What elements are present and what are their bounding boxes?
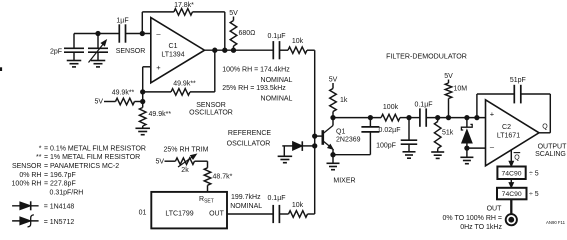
svg-text:0Hz TO 1kHz: 0Hz TO 1kHz — [460, 224, 502, 231]
diode 1N5712 schottky clamp — [461, 118, 472, 158]
scan edge artifact — [0, 68, 2, 71]
svg-text:= 196.7pF: = 196.7pF — [44, 172, 76, 179]
capacitor 0.02uF — [361, 118, 400, 134]
svg-text:5V: 5V — [155, 159, 164, 166]
label AN90 F11 — [546, 220, 566, 225]
op-amp C2 LT1671 — [486, 100, 540, 166]
svg-text:51k: 51k — [442, 130, 454, 137]
svg-text:10k: 10k — [292, 202, 304, 209]
resistor 48.7k — [204, 161, 232, 192]
wire emitter to 0.02uF — [333, 132, 370, 155]
svg-text:LTC1799: LTC1799 — [165, 210, 193, 217]
wire LTC1799 OUT — [227, 213, 273, 215]
transistor Q1 2N2369 — [315, 118, 361, 155]
resistor 10k — [279, 38, 314, 53]
capacitor 0.1uF filter — [414, 102, 432, 127]
node — [465, 146, 469, 150]
svg-text:199.7kHz: 199.7kHz — [231, 194, 261, 201]
svg-text:= 227.8pF: = 227.8pF — [44, 181, 76, 188]
resistor 10M — [445, 80, 467, 118]
node — [475, 115, 479, 119]
node — [436, 115, 440, 119]
resistor 17.8k feedback — [142, 2, 225, 50]
capacitor 1uF — [116, 17, 128, 42]
svg-text:100k: 100k — [383, 104, 399, 111]
wire C2 output Q — [539, 123, 550, 133]
svg-text:OUTPUT: OUTPUT — [538, 144, 567, 151]
svg-text:100pF: 100pF — [376, 142, 396, 149]
capacitor 51pF feedback — [477, 77, 550, 133]
node sensor junction — [96, 31, 100, 35]
svg-text:100% RH: 100% RH — [12, 181, 42, 188]
node emitter — [331, 153, 335, 157]
svg-text:= 1N5712: = 1N5712 — [44, 219, 75, 226]
wire sensor top rail — [74, 33, 119, 35]
node — [465, 115, 469, 119]
svg-text:C1: C1 — [169, 43, 178, 50]
op-amp C1 LT1394 — [151, 18, 205, 83]
svg-text:49.9k**: 49.9k** — [112, 90, 135, 97]
capacitor 0.1uF coupling — [267, 195, 285, 223]
svg-text:2k: 2k — [181, 167, 189, 174]
capacitor 0.1uF coupling — [267, 33, 285, 59]
resistor 49.9k to ground — [139, 102, 171, 129]
svg-text:NOMINAL: NOMINAL — [261, 77, 293, 84]
legend notes — [12, 145, 146, 196]
svg-text:SCALING: SCALING — [535, 151, 566, 158]
node diode tap — [313, 144, 317, 148]
power 5V — [444, 73, 453, 80]
label 25% RH TRIM — [164, 146, 209, 153]
legend diode 1N4148 — [12, 201, 74, 210]
svg-text:0% RH: 0% RH — [19, 172, 41, 179]
svg-text:49.9k**: 49.9k** — [173, 81, 196, 88]
resistor 1k — [330, 83, 348, 118]
wire C1 noninverting input — [143, 67, 151, 102]
wire to C2 inverting input — [467, 147, 486, 149]
label 199.7kHz NOMINAL — [230, 194, 262, 210]
node — [446, 115, 450, 119]
label SENSOR OSCILLATOR — [189, 102, 233, 117]
label REFERENCE OSCILLATOR — [227, 130, 272, 147]
svg-text:680Ω: 680Ω — [239, 30, 256, 37]
svg-text:0% TO 100% RH =: 0% TO 100% RH = — [443, 215, 502, 222]
node — [407, 115, 411, 119]
svg-text:= 0.1% METAL FILM RESISTOR: = 0.1% METAL FILM RESISTOR — [44, 145, 146, 152]
label output range — [443, 215, 503, 231]
svg-text:48.7k*: 48.7k* — [213, 173, 233, 180]
diode 1N4148 clamp — [278, 141, 315, 162]
label MIXER — [333, 178, 355, 185]
svg-text:0.1µF: 0.1µF — [267, 33, 285, 40]
svg-text:SENSOR: SENSOR — [196, 102, 226, 109]
svg-text:10k: 10k — [292, 38, 304, 45]
svg-text:100% RH = 174.4kHz: 100% RH = 174.4kHz — [222, 67, 290, 74]
svg-text:NOMINAL: NOMINAL — [261, 95, 293, 102]
svg-text:**: ** — [36, 154, 42, 161]
svg-text:SENSOR: SENSOR — [116, 48, 146, 55]
svg-text:74C90: 74C90 — [501, 170, 521, 177]
wire emitter to ground — [332, 155, 334, 164]
svg-text:25% RH = 193.5kHz: 25% RH = 193.5kHz — [222, 85, 286, 92]
node mixer base tap — [313, 134, 317, 138]
node A — [141, 90, 145, 94]
resistor 49.9k positive feedback — [143, 50, 215, 95]
svg-text:MIXER: MIXER — [333, 178, 355, 185]
wire filter rail — [333, 117, 381, 119]
svg-text:51pF: 51pF — [510, 77, 526, 84]
ground — [91, 61, 106, 67]
svg-text:Q: Q — [542, 123, 548, 130]
output terminal — [506, 214, 517, 225]
svg-text:0.1µF: 0.1µF — [267, 195, 285, 202]
wire main vertical to mixer — [314, 50, 316, 214]
svg-text:÷ 5: ÷ 5 — [529, 191, 539, 198]
svg-text:OUT: OUT — [209, 210, 225, 217]
sensor capacitor (variable) — [88, 34, 145, 63]
svg-text:0.02µF: 0.02µF — [379, 127, 401, 134]
wire Qbar to divider — [509, 150, 520, 166]
svg-text:10M: 10M — [454, 86, 468, 93]
svg-text:5V: 5V — [444, 73, 453, 80]
wire — [426, 117, 485, 119]
svg-text:49.9k**: 49.9k** — [149, 111, 172, 118]
svg-text:= 1N4148: = 1N4148 — [44, 203, 75, 210]
svg-text:LT1394: LT1394 — [161, 52, 184, 59]
power 5V — [229, 10, 238, 17]
capacitor 100pF — [376, 118, 417, 152]
svg-text:01: 01 — [139, 210, 147, 217]
svg-text:1k: 1k — [340, 97, 348, 104]
legend schottky diode 1N5712 — [12, 215, 74, 227]
svg-text:25% RH TRIM: 25% RH TRIM — [164, 146, 209, 153]
power 5V — [329, 77, 338, 84]
label OUTPUT SCALING — [535, 144, 567, 159]
node collector — [331, 115, 335, 119]
divider 74C90 first — [497, 167, 538, 180]
ground — [460, 157, 473, 163]
resistor 680 ohm pullup — [230, 17, 255, 51]
power 5V — [155, 159, 164, 166]
ground — [327, 163, 340, 169]
label OUT — [487, 206, 503, 213]
power 5V — [94, 99, 103, 106]
resistor 10k — [279, 202, 314, 217]
svg-text:5V: 5V — [94, 99, 103, 106]
svg-text:SENSOR: SENSOR — [12, 163, 42, 170]
svg-text:2pF: 2pF — [50, 49, 62, 56]
resistor 100k — [381, 104, 409, 121]
svg-text:OUT: OUT — [487, 206, 503, 213]
ground — [403, 152, 416, 158]
resistor 51k — [434, 118, 453, 152]
svg-text:2N2369: 2N2369 — [336, 136, 361, 143]
node — [223, 48, 227, 52]
svg-text:74C90: 74C90 — [502, 191, 522, 198]
svg-text:C2: C2 — [502, 124, 511, 131]
svg-text:+: + — [490, 110, 495, 119]
svg-text:+: + — [156, 63, 161, 72]
label frequencies — [222, 67, 292, 103]
node — [231, 48, 235, 52]
node B — [141, 99, 145, 103]
node — [213, 48, 217, 52]
ground — [67, 61, 82, 67]
svg-text:LT1671: LT1671 — [497, 132, 520, 139]
svg-text:FILTER-DEMODULATOR: FILTER-DEMODULATOR — [386, 53, 467, 61]
resistor 49.9k bias — [104, 90, 143, 105]
svg-text:17.8k*: 17.8k* — [174, 2, 194, 9]
wire divider to output terminal — [510, 199, 512, 215]
svg-text:5V: 5V — [229, 10, 238, 17]
node feedback tap — [140, 31, 144, 35]
svg-text:NOMINAL: NOMINAL — [230, 203, 262, 210]
svg-text:AN90 F11: AN90 F11 — [546, 220, 566, 225]
svg-text:OSCILLATOR: OSCILLATOR — [227, 140, 271, 147]
svg-text:5V: 5V — [329, 77, 338, 84]
svg-text:*: * — [39, 145, 42, 152]
svg-text:Q1: Q1 — [336, 128, 345, 135]
svg-text:OSCILLATOR: OSCILLATOR — [189, 109, 233, 116]
ground — [135, 128, 150, 134]
wire to C1 inverting input — [126, 33, 151, 35]
label FILTER-DEMODULATOR — [386, 53, 467, 61]
svg-text:= PANAMETRICS MC-2: = PANAMETRICS MC-2 — [44, 163, 119, 170]
ground — [431, 152, 444, 158]
svg-text:= 1% METAL FILM RESISTOR: = 1% METAL FILM RESISTOR — [44, 154, 140, 161]
svg-text:0.31pF/RH: 0.31pF/RH — [50, 189, 84, 196]
wire divider to divider — [509, 179, 513, 188]
svg-text:1µF: 1µF — [116, 17, 128, 24]
wire C1 output rail — [205, 49, 273, 51]
divider 74C90 second — [497, 188, 539, 200]
trimmer 2k — [165, 154, 208, 174]
svg-text:0.1µF: 0.1µF — [414, 102, 432, 109]
oscillator O1 LTC1799 — [139, 192, 227, 229]
svg-text:REFERENCE: REFERENCE — [228, 130, 272, 137]
svg-text:÷ 5: ÷ 5 — [529, 171, 539, 178]
node — [368, 115, 372, 119]
wire — [409, 117, 420, 119]
svg-text:Q: Q — [514, 155, 520, 162]
capacitor 2pF — [50, 34, 84, 61]
